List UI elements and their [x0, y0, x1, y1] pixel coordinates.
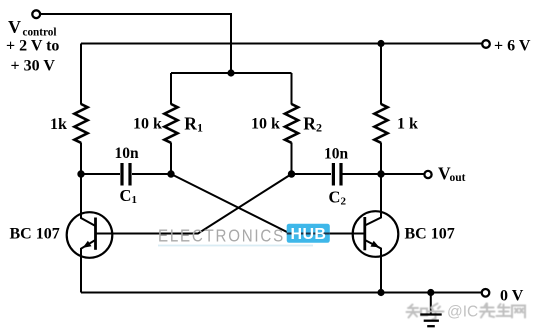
svg-text:1: 1	[197, 120, 203, 134]
svg-text:V: V	[8, 17, 21, 37]
svg-text:10n: 10n	[115, 145, 140, 162]
svg-text:2: 2	[341, 196, 347, 208]
svg-text:@IC: @IC	[447, 303, 478, 320]
svg-text:2: 2	[316, 120, 322, 134]
svg-text:ELECTRONICS: ELECTRONICS	[158, 227, 285, 246]
svg-text:C: C	[329, 188, 341, 207]
svg-text:R: R	[184, 113, 197, 133]
svg-text:BC 107: BC 107	[10, 226, 60, 243]
svg-text:BC 107: BC 107	[405, 226, 455, 243]
svg-text:10n: 10n	[324, 146, 349, 163]
svg-text:+ 30 V: + 30 V	[11, 58, 56, 75]
svg-text:1k: 1k	[50, 116, 67, 133]
svg-text:+ 6 V: + 6 V	[494, 38, 531, 55]
svg-text:10 k: 10 k	[133, 116, 162, 133]
svg-text:1: 1	[132, 194, 138, 206]
svg-text:C: C	[120, 186, 132, 205]
svg-text:out: out	[450, 172, 466, 184]
svg-text:1 k: 1 k	[397, 116, 418, 133]
svg-text:0 V: 0 V	[500, 288, 524, 305]
svg-text:R: R	[303, 113, 316, 133]
svg-text:+ 2 V to: + 2 V to	[6, 38, 59, 55]
svg-text:10 k: 10 k	[251, 116, 280, 133]
svg-text:HUB: HUB	[291, 226, 327, 243]
